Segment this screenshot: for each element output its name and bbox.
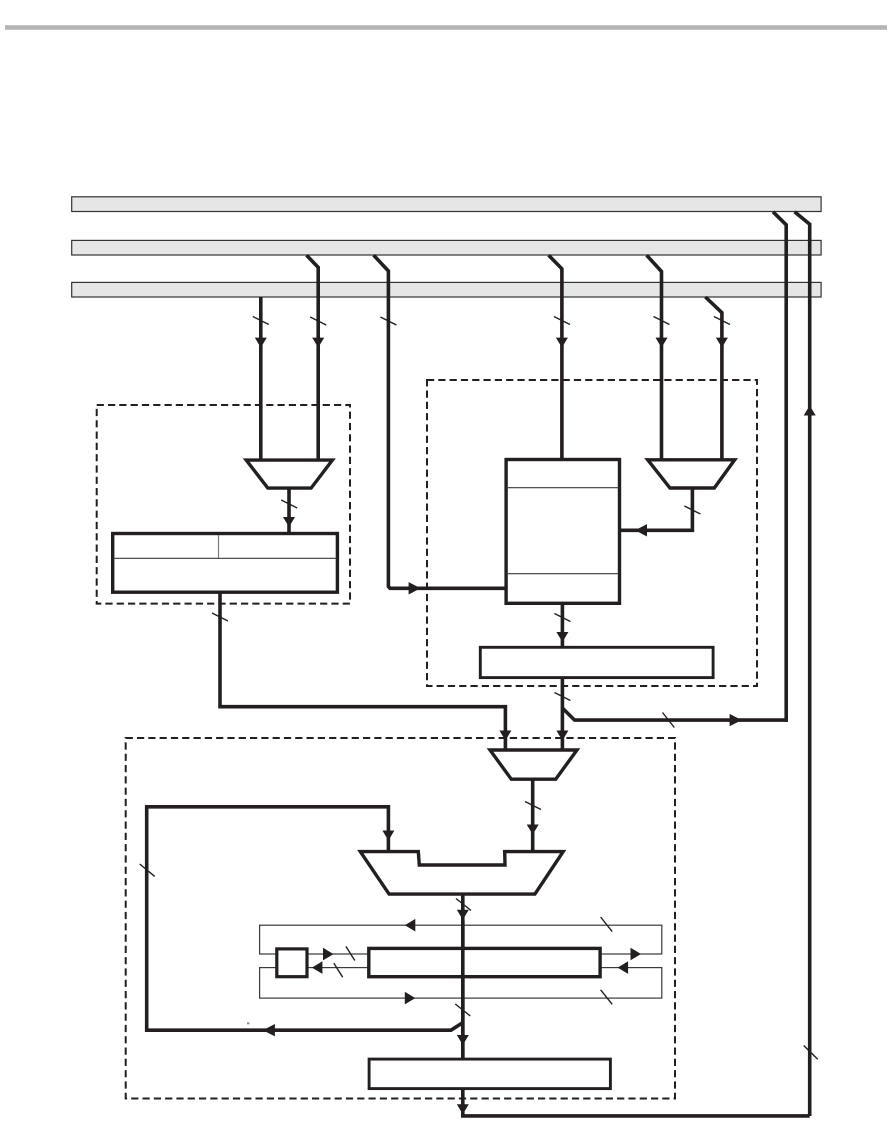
slash on W2 [310, 317, 326, 325]
bus bar 3 (bottom bus) [72, 282, 821, 297]
slash on W3 [380, 317, 396, 325]
arrow into ALU left input [382, 831, 394, 841]
tall register output wire [561, 603, 565, 647]
output register output wire to wire B [463, 1089, 810, 1116]
arrow into mux M3 left input [499, 731, 511, 741]
slash on lower band bottom edge [601, 990, 613, 1005]
tall register [506, 460, 619, 604]
arrow on W5 [656, 338, 668, 348]
slash on wide register output [554, 693, 570, 701]
wire W1: bus3 to mux M1 left input [259, 297, 263, 461]
mux M3 [490, 750, 577, 779]
slash on tall register output [554, 614, 570, 622]
arrow on W1 [255, 338, 267, 348]
tall register upper divider [507, 487, 620, 489]
wire W3: bus2 down, right into temp register left port [374, 255, 506, 588]
dashed box: bottom unit [126, 738, 675, 1099]
arrow into mux M3 right input [556, 731, 568, 741]
slash on left register output [212, 613, 228, 621]
output register [369, 1059, 610, 1089]
stray dot [247, 1022, 249, 1024]
slash: accumulator to carry box segment [334, 963, 343, 977]
wide register [480, 647, 713, 677]
arrow on W3 horizontal run [409, 582, 421, 594]
arrow left on lower band top right segment [618, 961, 629, 974]
slash on W6 [714, 317, 730, 325]
arrow on W4 [556, 338, 568, 348]
mux M1 output wire [287, 488, 291, 534]
slash on ALU output [456, 899, 471, 911]
slash on M1 output [281, 500, 297, 508]
mux M2 output wire into tall register [621, 488, 693, 530]
tall register top input stub [560, 460, 564, 462]
accumulator feedback loop wire [147, 807, 463, 1030]
left register output wire to mux M3 left input [220, 592, 505, 750]
left register field divider [218, 535, 220, 558]
dashed box: left unit [97, 405, 350, 604]
carry bit box [277, 949, 307, 977]
dashed box: right unit [427, 380, 757, 686]
accumulator register [369, 948, 600, 976]
wire B: writeback from bottom output up to bus1 [795, 212, 810, 1116]
slash on upper band top edge [601, 917, 613, 932]
wire W6: bus3 to mux M2 right input [705, 297, 722, 461]
arrow on ALU output [457, 910, 469, 920]
shift-left loop band (lower) [260, 968, 662, 999]
slash below accumulator [455, 1004, 470, 1016]
ALU U1 [360, 852, 563, 895]
bus bar 1 (top bus) [72, 197, 821, 212]
arrow right: carry box to accumulator [323, 948, 334, 961]
slash: carry box to accumulator segment [346, 946, 355, 960]
wire W5: bus2 to mux M2 left input [647, 255, 662, 461]
mux M1 [246, 460, 332, 488]
ALU result wire down through shift unit to output register [461, 894, 465, 1059]
branch wire to wire A (to bus1) [562, 708, 787, 720]
wire: ALU result continues over register [461, 920, 465, 1059]
arrow up on wire B [804, 406, 816, 416]
slash on M2 output [684, 506, 700, 514]
tall register lower divider [507, 573, 620, 575]
arrow on branch wire [730, 714, 742, 726]
slash on W4 [554, 317, 570, 325]
left register middle divider [113, 557, 337, 559]
wire A: result feed from bus1 down to node at y=720 [773, 212, 786, 722]
arrow into tall register right port [635, 524, 647, 536]
slash on M3 output [525, 802, 541, 810]
wire W2: bus2 to mux M1 right input [307, 255, 319, 461]
shift-right loop band (upper) [260, 925, 662, 954]
page header rule [5, 25, 887, 30]
wide register output wire down to mux M3 right input [561, 678, 565, 750]
arrow on W6 [716, 338, 728, 348]
arrow left: accumulator to carry box [312, 961, 323, 974]
slash on branch wire [663, 713, 675, 728]
slash on feedback left vertical [140, 864, 155, 876]
left register [113, 534, 338, 593]
arrow below output register [457, 1104, 469, 1114]
arrow left on upper band top edge [405, 919, 416, 932]
mux M3 output wire to ALU [531, 779, 535, 851]
arrow on W2 [312, 338, 324, 348]
slash on W1 [253, 317, 269, 325]
arrow right on lower band bottom edge [405, 992, 416, 1005]
arrow on M1 output [283, 517, 295, 527]
wire W4: bus2 to tall register top input [549, 255, 562, 461]
slash on W5 [654, 317, 670, 325]
arrow on feedback horizontal [263, 1024, 275, 1036]
bus bar 2 (middle bus) [72, 240, 821, 255]
mux M2 [648, 460, 735, 488]
arrow into output register [457, 1035, 469, 1045]
arrow right on upper band bottom right segment [631, 948, 642, 961]
slash on wire B [804, 1046, 818, 1060]
arrow on M3 output [527, 825, 539, 835]
arrow into wide register [556, 632, 568, 642]
